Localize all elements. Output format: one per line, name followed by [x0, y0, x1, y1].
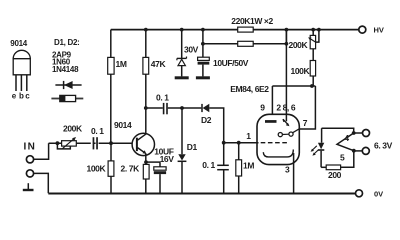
wire pin4 to terminal [354, 132, 363, 134]
terminal 6.3V upper [363, 130, 370, 137]
wire input signal line [49, 142, 137, 144]
input jack terminal bottom [26, 170, 33, 177]
svg-text:0. 1: 0. 1 [91, 126, 104, 136]
wire D2 to grid [209, 108, 223, 143]
wire left supply vertical [110, 30, 112, 144]
svg-text:D1, D2:: D1, D2: [54, 38, 79, 47]
capacitor 0.1 input [91, 137, 99, 149]
wire 47K collector vertical [145, 30, 147, 134]
legend diode package symbol [51, 95, 83, 101]
wire pin9 to divider [272, 86, 315, 120]
HV terminal [359, 26, 366, 33]
svg-text:1M: 1M [243, 161, 254, 171]
wire detector [146, 107, 163, 109]
wire cap to D2 [168, 107, 202, 109]
wire 0V bottom rail [48, 193, 355, 195]
heater bracket [337, 133, 354, 151]
svg-text:10UF/50V: 10UF/50V [213, 58, 249, 68]
svg-text:16V: 16V [160, 154, 175, 164]
wire pin5 to terminal [354, 150, 362, 152]
node divider junction [310, 84, 314, 88]
zener diode 30V [177, 30, 187, 77]
resistor 220K upper [238, 27, 254, 32]
resistor 2.7K emitter [143, 164, 149, 179]
node 1M/100K base junction [109, 141, 113, 145]
transistor Q1 9014 [132, 133, 154, 193]
wire heater top [322, 128, 354, 133]
svg-text:0. 1: 0. 1 [202, 160, 215, 170]
0V terminal [356, 190, 363, 197]
svg-text:30V: 30V [184, 44, 199, 54]
wire grid pin 1 [224, 142, 259, 144]
svg-text:7: 7 [303, 118, 308, 128]
resistor 1M supply [108, 57, 114, 74]
node rail junctions [144, 28, 321, 46]
10UF/16V label [154, 147, 174, 164]
svg-text:47K: 47K [151, 59, 167, 69]
svg-text:100K: 100K [291, 66, 311, 76]
legend transistor pin labels e b c [12, 92, 30, 101]
tube fluorescent screen [263, 150, 293, 157]
svg-text:9014: 9014 [114, 120, 132, 130]
svg-text:220K1W ×2: 220K1W ×2 [231, 16, 273, 26]
tube anode hook [283, 119, 290, 126]
node heater pin5 [352, 149, 356, 153]
diode D1 [178, 108, 187, 193]
capacitor 10UF/16V emitter [146, 162, 166, 193]
svg-text:200K: 200K [63, 123, 83, 133]
ground at filter cap [196, 76, 210, 79]
tube target contacts [278, 129, 299, 137]
capacitor 10UF/50V filter [198, 44, 210, 77]
node pot input junction [56, 141, 60, 145]
ground at zener [175, 76, 189, 79]
tube V1 EM84 6E2 outline [257, 114, 299, 164]
svg-text:D2: D2 [201, 115, 212, 125]
wire anode pins 2 8 6 [285, 30, 287, 122]
svg-text:1N4148: 1N4148 [52, 65, 79, 74]
legend diode list text D1 D2 [52, 38, 79, 74]
ground symbol at input [23, 183, 34, 191]
capacitor 0.1 coupling [164, 103, 167, 114]
terminal 6.3V lower [362, 147, 369, 154]
svg-text:0V: 0V [374, 189, 383, 198]
svg-text:200K: 200K [289, 40, 309, 50]
svg-text:6. 3V: 6. 3V [374, 140, 393, 150]
svg-text:5: 5 [340, 152, 345, 162]
svg-text:1M: 1M [116, 59, 127, 69]
node D1 junction [180, 106, 184, 110]
svg-text:8, 6: 8, 6 [283, 103, 296, 113]
wire jack top to volume pot [34, 143, 49, 159]
svg-text:D1: D1 [187, 142, 198, 152]
svg-text:4: 4 [344, 133, 349, 143]
svg-text:2. 7K: 2. 7K [121, 163, 141, 173]
svg-text:9: 9 [260, 103, 265, 113]
svg-text:2: 2 [276, 103, 281, 113]
potentiometer 200K volume [57, 137, 76, 149]
resistor 200 heater [321, 151, 354, 170]
potentiometer 200K HV adjust [308, 30, 319, 61]
svg-text:b: b [19, 92, 24, 101]
resistor 100K HV [310, 61, 315, 87]
wire pin 3 cathode [293, 153, 295, 193]
LED indicator [311, 128, 325, 167]
tube grid dashed [261, 142, 289, 144]
node grid cap junction [222, 141, 226, 145]
legend transistor TO-92 package [13, 50, 30, 91]
svg-text:3: 3 [285, 164, 290, 174]
svg-text:EM84, 6E2: EM84, 6E2 [230, 84, 269, 94]
resistor 220K lower [238, 41, 254, 46]
node 1M grid junction [237, 141, 241, 145]
svg-text:IN: IN [24, 141, 37, 152]
wire pin7 [300, 86, 316, 129]
svg-text:0. 1: 0. 1 [156, 92, 169, 102]
wire HV top rail [111, 29, 359, 31]
wire jack bottom to 0V rail [34, 173, 49, 193]
resistor 100K bias [108, 143, 114, 193]
capacitor 0.1 grid [217, 143, 229, 194]
wire 220K bypass rail [203, 30, 287, 44]
legend diode symbol [55, 81, 81, 89]
input jack terminal top [26, 156, 33, 163]
node collector junction [144, 106, 148, 110]
svg-text:9014: 9014 [10, 39, 27, 48]
svg-text:100K: 100K [87, 163, 107, 173]
tube plate bar pin 9 [265, 120, 277, 123]
node emitter junction [144, 160, 148, 164]
diode D2 [202, 104, 209, 113]
svg-text:HV: HV [374, 25, 384, 34]
svg-text:200: 200 [328, 170, 342, 180]
resistor 47K [143, 57, 149, 74]
resistor 1M grid [236, 143, 242, 194]
node heater pin4 [352, 131, 356, 135]
svg-text:1: 1 [246, 131, 251, 141]
